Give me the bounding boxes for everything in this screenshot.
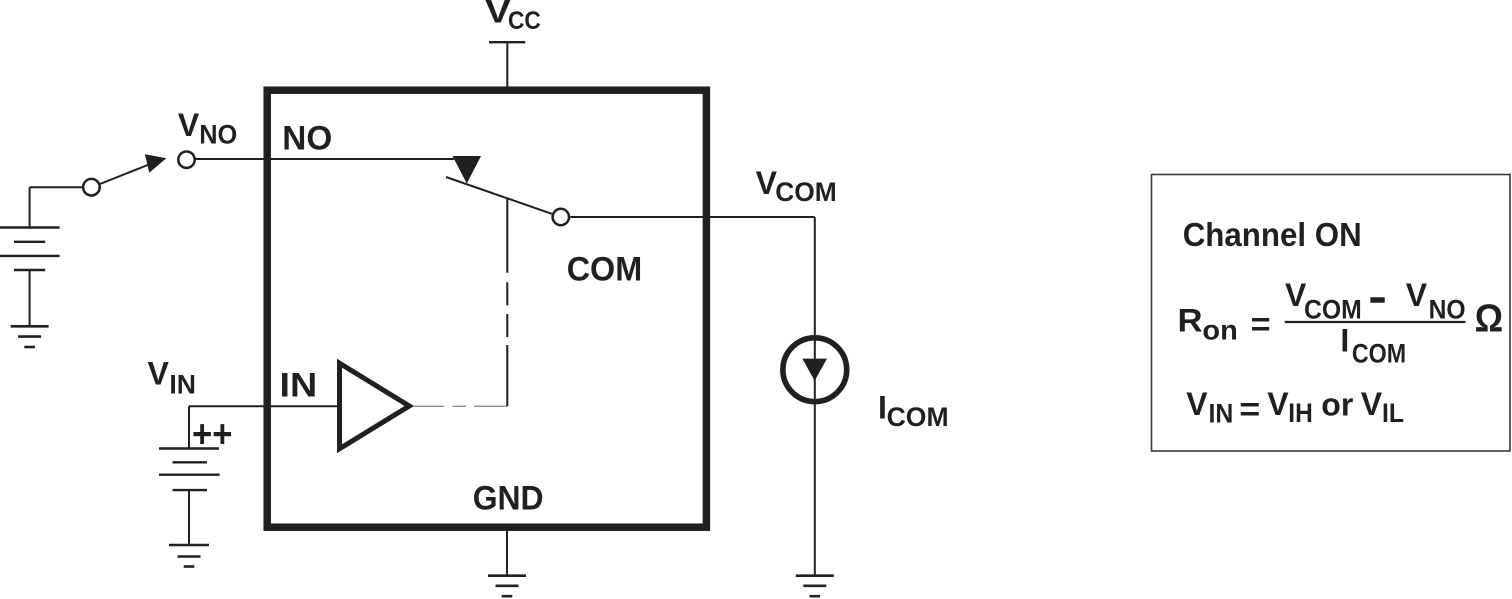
- svg-text:V: V: [1186, 386, 1208, 422]
- svg-text:GND: GND: [473, 480, 544, 518]
- formula denominator ICOM: [1340, 322, 1406, 368]
- current source I1 circle: [783, 338, 847, 402]
- svg-text:or: or: [1321, 387, 1353, 423]
- svg-text:=: =: [1239, 391, 1260, 427]
- svg-text:I: I: [1340, 322, 1349, 358]
- ground below current source: [796, 576, 834, 597]
- wire VIN to IN pin: [189, 406, 340, 448]
- svg-text:IL: IL: [1382, 398, 1404, 428]
- label VIN: [148, 356, 197, 400]
- battery B1: [0, 228, 60, 327]
- svg-text:NO: NO: [199, 119, 237, 149]
- svg-text:V: V: [1267, 386, 1289, 422]
- svg-text:Ω: Ω: [1475, 297, 1504, 340]
- buffer amplifier U2: [340, 363, 410, 449]
- svg-text:COM: COM: [567, 251, 643, 289]
- svg-text:CC: CC: [508, 7, 541, 35]
- node COM circle: [553, 209, 569, 225]
- svg-text:on: on: [1202, 315, 1237, 346]
- svg-text:I: I: [878, 390, 887, 426]
- label VNO: [178, 107, 237, 150]
- wire COM to VCOM: [570, 216, 815, 218]
- power symbol VCC: [489, 41, 525, 43]
- svg-text:COM: COM: [1304, 294, 1362, 324]
- formula numerator VCOM minus VNO: [1285, 277, 1466, 325]
- ground below GND pin: [488, 576, 526, 597]
- svg-text:=: =: [1251, 306, 1271, 342]
- svg-text:IN: IN: [169, 370, 196, 400]
- dash-dot control line horizontal: [414, 405, 507, 407]
- svg-text:V: V: [178, 107, 200, 143]
- svg-text:COM: COM: [775, 177, 837, 207]
- switch S1 pole circle: [83, 179, 100, 196]
- label VCOM: [756, 165, 837, 207]
- switch blade inside box: [446, 177, 552, 214]
- svg-text:IN: IN: [1209, 398, 1234, 428]
- switch contact arrow inside box: [453, 156, 482, 184]
- formula Ron equals: [1178, 302, 1271, 345]
- ground below battery B2: [169, 545, 209, 567]
- label VCC: [485, 0, 541, 35]
- switch S1 blade with arrowhead: [100, 154, 166, 184]
- svg-text:IH: IH: [1288, 398, 1313, 428]
- svg-text:COM: COM: [887, 402, 949, 432]
- dashed actuator line vertical: [506, 199, 508, 407]
- svg-text:V: V: [1406, 277, 1428, 313]
- label ICOM: [878, 390, 949, 432]
- wire VNO to NO pin: [196, 158, 455, 160]
- current source I1 arrow: [802, 359, 827, 381]
- wire switch to battery B1: [30, 187, 83, 227]
- annotation VIN condition line: [1186, 386, 1404, 428]
- svg-text:NO: NO: [1429, 295, 1466, 325]
- DUT box U1: [267, 90, 706, 527]
- wire VCOM down through current source: [814, 217, 816, 576]
- ground below battery B1: [11, 326, 49, 347]
- node VNO terminal circle: [178, 152, 194, 168]
- svg-text:NO: NO: [282, 120, 332, 158]
- svg-text:COM: COM: [1352, 338, 1406, 368]
- annotation box frame: [1152, 175, 1511, 452]
- wire VCC to box: [506, 42, 508, 89]
- wire GND pin to ground: [506, 529, 508, 576]
- svg-text:V: V: [1361, 386, 1383, 422]
- svg-text:Channel ON: Channel ON: [1183, 216, 1362, 253]
- svg-text:IN: IN: [280, 366, 318, 404]
- svg-text:R: R: [1178, 302, 1203, 338]
- formula fraction bar: [1285, 321, 1466, 323]
- svg-text:V: V: [148, 356, 170, 392]
- battery B2: [159, 449, 220, 546]
